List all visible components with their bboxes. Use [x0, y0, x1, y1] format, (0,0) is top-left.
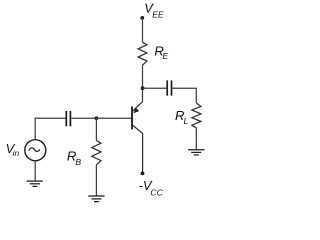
- node VEE terminal dot: [140, 16, 144, 20]
- label VEE: [144, 0, 164, 19]
- junction dot: base node: [95, 116, 99, 120]
- source Vin (AC) circle: [25, 140, 46, 161]
- ground (under RL): [188, 150, 205, 155]
- wire: Vin bottom to ground: [34, 161, 36, 181]
- capacitor C1 (input): [66, 111, 70, 126]
- wire: base node down to RB top: [95, 118, 97, 140]
- ground (under Vin): [27, 181, 43, 186]
- transistor Q1 (PNP) base bar: [131, 106, 133, 129]
- wire: RE bottom through emitter node down to emitter bend: [142, 65, 144, 101]
- svg-text:B: B: [75, 157, 81, 167]
- resistor RB: [92, 141, 101, 165]
- source Vin sine symbol: [29, 148, 40, 152]
- junction dot: emitter node: [141, 86, 145, 90]
- svg-text:in: in: [13, 148, 20, 158]
- wire: input capacitor to base node: [71, 117, 96, 119]
- label Vin: [6, 141, 20, 158]
- transistor Q1 emitter lead: [133, 102, 143, 112]
- wire: emitter node to output capacitor: [143, 87, 167, 89]
- label RL: [175, 108, 189, 126]
- label RB: [67, 148, 82, 167]
- svg-text:L: L: [184, 116, 189, 126]
- wire: output capacitor to RL top: [172, 88, 196, 103]
- label RE: [154, 44, 168, 62]
- resistor RL: [192, 103, 201, 128]
- ground (under RB): [88, 196, 104, 202]
- svg-text:CC: CC: [150, 188, 163, 198]
- wire: RB bottom to ground: [95, 165, 97, 196]
- svg-text:EE: EE: [152, 9, 164, 19]
- label -VCC: [139, 178, 164, 198]
- wire: base node to transistor base: [96, 117, 131, 119]
- wire: VEE node to RE top: [142, 18, 144, 42]
- transistor Q1 collector lead: [133, 125, 143, 172]
- transistor Q1 emitter arrow (PNP): [133, 108, 139, 114]
- resistor RE: [138, 42, 147, 65]
- wire: RL bottom to ground: [195, 128, 197, 150]
- wire: Vin top to input capacitor: [35, 118, 65, 139]
- svg-text:E: E: [162, 51, 168, 61]
- capacitor C2 (output): [167, 80, 171, 95]
- node -VCC terminal dot: [141, 172, 145, 176]
